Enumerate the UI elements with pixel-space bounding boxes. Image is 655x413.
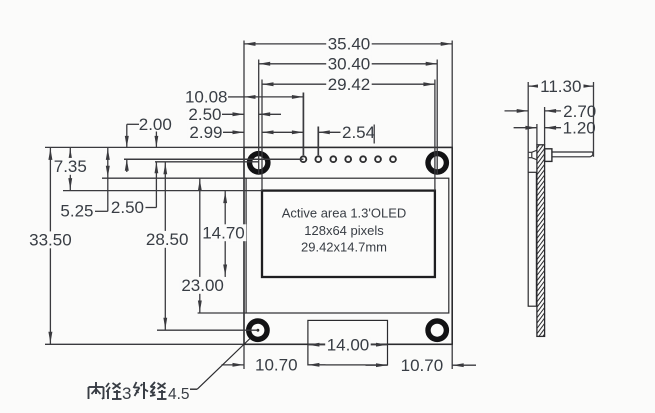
svg-text:14.70: 14.70 [202,223,245,242]
dim 2.70 [505,102,597,121]
ext line hole TL center [258,60,260,175]
dim 10.70 left [222,356,326,375]
dim 14.70 [201,191,247,277]
ext line pin hole 2 [317,127,319,156]
dim 35.40 [244,35,452,54]
dim 2.50 top [187,105,281,124]
dim 2.50 left [109,132,158,218]
dim 2.54 [318,123,375,142]
dim 29.42 [262,75,435,94]
active area outline [262,191,435,277]
svg-text:1.20: 1.20 [563,119,596,138]
dim 30.40 [259,55,438,74]
svg-text:Active area 1.3'OLED: Active area 1.3'OLED [282,206,407,221]
side glass slab [528,172,536,306]
ext line PCB right top [451,41,453,148]
note text 经 [150,382,167,399]
mounting hole BR [428,321,446,339]
svg-text:28.50: 28.50 [146,230,189,249]
ext line active left [261,80,263,191]
ext glass top left [102,177,246,179]
side ext pcb left [536,124,538,145]
svg-text:23.00: 23.00 [181,276,224,295]
mounting hole BL [249,321,267,339]
svg-text:2.99: 2.99 [189,123,222,142]
pin hole 7 [390,156,396,162]
dim 23.00 [180,178,226,313]
dim 2.00 [125,115,172,172]
pin hole 1 [301,156,307,162]
ext hole TL row [155,161,259,163]
dim 1.20 [514,119,596,138]
note text 外 [134,382,149,399]
side PCB cross-section [537,145,545,337]
dim 11.30 [528,77,593,96]
svg-text:14.00: 14.00 [327,336,370,355]
active area label [282,206,407,255]
side pin tip left [528,150,537,160]
mounting hole TL [250,154,268,172]
svg-text:2.50: 2.50 [111,198,144,217]
svg-text:7.35: 7.35 [54,157,87,176]
ext line PCB left top [243,41,245,148]
note leader [190,339,250,390]
dim 14.00 [308,336,388,355]
ext PCB right bottom [451,344,453,369]
svg-text:29.42: 29.42 [328,75,371,94]
mounting hole TR [428,154,446,172]
svg-text:4.5: 4.5 [168,386,190,403]
pin hole 5 [360,156,366,162]
ext glass bottom left [198,312,247,314]
svg-text:128x64 pixels: 128x64 pixels [304,223,384,238]
pin hole 6 [375,156,381,162]
svg-text:33.50: 33.50 [29,231,72,250]
svg-text:10.70: 10.70 [255,356,298,375]
side ext pin end [593,82,595,157]
display glass outline [246,178,449,313]
pin hole 3 [330,156,336,162]
svg-text:30.40: 30.40 [328,55,371,74]
ext PCB left bottom [243,344,245,369]
ext PCB top left [45,146,244,148]
svg-text:2.00: 2.00 [139,115,172,134]
side ext glass front [527,82,529,172]
dim 2.99 [188,123,304,142]
stray tick after 2.54 [373,125,375,144]
dim 10.70 right [366,356,477,375]
svg-text:5.25: 5.25 [60,202,93,221]
side pin [552,152,593,157]
svg-text:10.70: 10.70 [401,356,444,375]
ext PCB bottom left [45,343,244,345]
dim 28.50 [144,162,190,330]
svg-text:11.30: 11.30 [540,77,581,96]
dim 7.35 [52,147,88,190]
side header body [545,149,552,162]
ext pin row left [124,158,303,160]
svg-text:35.40: 35.40 [328,35,371,54]
note text 内 [89,382,104,399]
ext hole BL row [157,329,258,331]
svg-text:3: 3 [122,384,131,403]
ext line hole TR center [436,60,438,175]
ext line pin hole 1 [302,93,304,156]
note text 径 [106,383,122,399]
svg-text:10.08: 10.08 [185,88,228,107]
note text 4.5 [168,386,190,403]
svg-text:29.42x14.7mm: 29.42x14.7mm [301,240,387,255]
dim 10.08 [184,88,304,107]
pin hole 2 [315,156,321,162]
note text 3 [122,384,131,403]
ext line active right [434,80,436,191]
hole BL center mark [257,329,260,332]
side ext pcb right [544,107,546,145]
connector zone box [308,320,388,365]
PCB outline [244,147,452,344]
svg-text:2.50: 2.50 [188,105,221,124]
dim 33.50 [28,147,74,344]
ext active top left [63,190,262,192]
pin hole 4 [345,156,351,162]
dim 5.25 [59,147,110,220]
svg-text:2.54: 2.54 [342,123,375,142]
